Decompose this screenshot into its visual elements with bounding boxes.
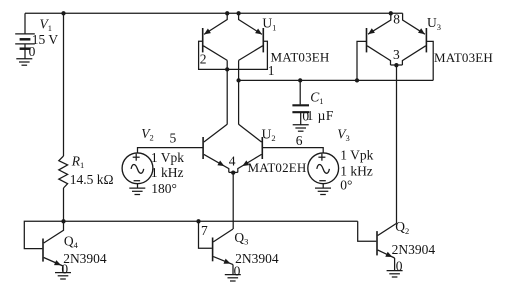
wire mid rail U1B-C1-U3 bases [239,79,434,81]
svg-text:MAT02EH: MAT02EH [248,160,307,175]
wire U3B base out [426,41,433,80]
svg-text:1 kHz: 1 kHz [151,165,184,180]
transistor U2A (NPN) [203,124,229,172]
wire U1A net down to U2 collector [226,69,228,124]
svg-text:MAT03EH: MAT03EH [271,49,330,64]
junction node U3 pin 3 [394,63,398,67]
junction node Q3 base tap [196,219,200,223]
svg-text:14.5 kΩ: 14.5 kΩ [70,172,114,187]
transistor Q2 2N3904 [377,223,397,270]
svg-text:3: 3 [393,47,400,62]
wire V+ rail down to R1 [63,13,65,156]
transistor U2B (NPN) [238,124,262,172]
svg-text:1 Vpk: 1 Vpk [151,150,184,165]
wire Q2 base loop [358,221,377,241]
junction node U1 emitter A [225,11,229,15]
ground (V3) [315,188,331,194]
resistor R1 [59,156,68,188]
wire U1 base interconnect [199,41,268,69]
wire R1 to bottom rail [63,188,65,221]
svg-text:2N3904: 2N3904 [235,251,279,266]
transistor U3B (PNP) [402,13,426,65]
svg-text:4: 4 [229,154,236,169]
svg-text:2: 2 [200,52,207,67]
junction node U3 emitter A [389,11,393,15]
AC source V2 [122,153,153,188]
capacitor C1 [292,105,309,124]
transistor U1B (PNP) [239,13,264,60]
wire C1 to mid rail [299,80,301,104]
svg-text:0: 0 [29,44,36,59]
ground (Q3) [225,275,241,281]
transistor Q4 2N3904 [43,221,64,272]
junction node U2 pin 4 [231,170,235,174]
battery V1 15V [15,13,35,59]
ground (V2) [129,188,145,194]
wire U3A base out [357,41,367,80]
svg-text:1: 1 [268,63,275,78]
svg-text:2N3904: 2N3904 [63,251,107,266]
wire U3 pin3 to Q2 collector [396,65,398,223]
ground (Q2) [387,271,403,277]
svg-text:15 V: 15 V [32,32,59,47]
wire top supply rail [25,12,403,14]
junction node U1 emitter B [236,11,240,15]
wire bottom rail [64,220,358,222]
junction node C1 tap [298,78,302,82]
svg-text:0: 0 [396,259,403,274]
wire U2 emitters to Q3 collector [232,173,234,229]
transistor U1A (PNP) [203,13,228,60]
svg-text:0: 0 [61,261,68,276]
wire U1B collector down to U2 collector [238,60,240,124]
wire U2 emitters join (pin 4) [229,171,238,173]
svg-text:8: 8 [393,11,400,26]
svg-text:0°: 0° [340,177,352,192]
svg-text:1 µF: 1 µF [307,108,334,123]
ground (V1) [16,59,32,65]
transistor U3A (PNP) [367,13,391,65]
wire U1A collector to bases (diode tie) [226,60,228,69]
svg-text:2N3904: 2N3904 [392,242,436,257]
wire Q3 base loop [199,221,212,248]
AC source V3 [308,153,339,188]
transistor Q3 2N3904 [213,229,233,274]
ground (Q4) [55,273,71,279]
svg-text:7: 7 [201,223,208,238]
svg-text:MAT03EH: MAT03EH [434,50,493,65]
junction node U1B/mid-rail [236,78,240,82]
ground (C1) [293,125,309,131]
wire V2 to U2A base (pin 5) [138,148,204,153]
svg-text:1 Vpk: 1 Vpk [340,148,373,163]
wire V3 to U2B base (pin 6) [262,148,323,153]
svg-text:180°: 180° [151,181,177,196]
junction node Q4 collector/base [61,219,65,223]
junction node U3 base tap [355,78,359,82]
svg-text:0: 0 [234,264,241,279]
wire Q4 base loop [24,221,63,248]
junction node V+/R1 [61,11,65,15]
svg-text:5: 5 [170,130,177,145]
junction node U1 pin2 tie [225,67,229,71]
svg-text:1 kHz: 1 kHz [340,163,373,178]
svg-text:0: 0 [302,109,309,124]
svg-text:6: 6 [296,133,303,148]
wire U3 collectors join (pin 3) [391,64,403,66]
